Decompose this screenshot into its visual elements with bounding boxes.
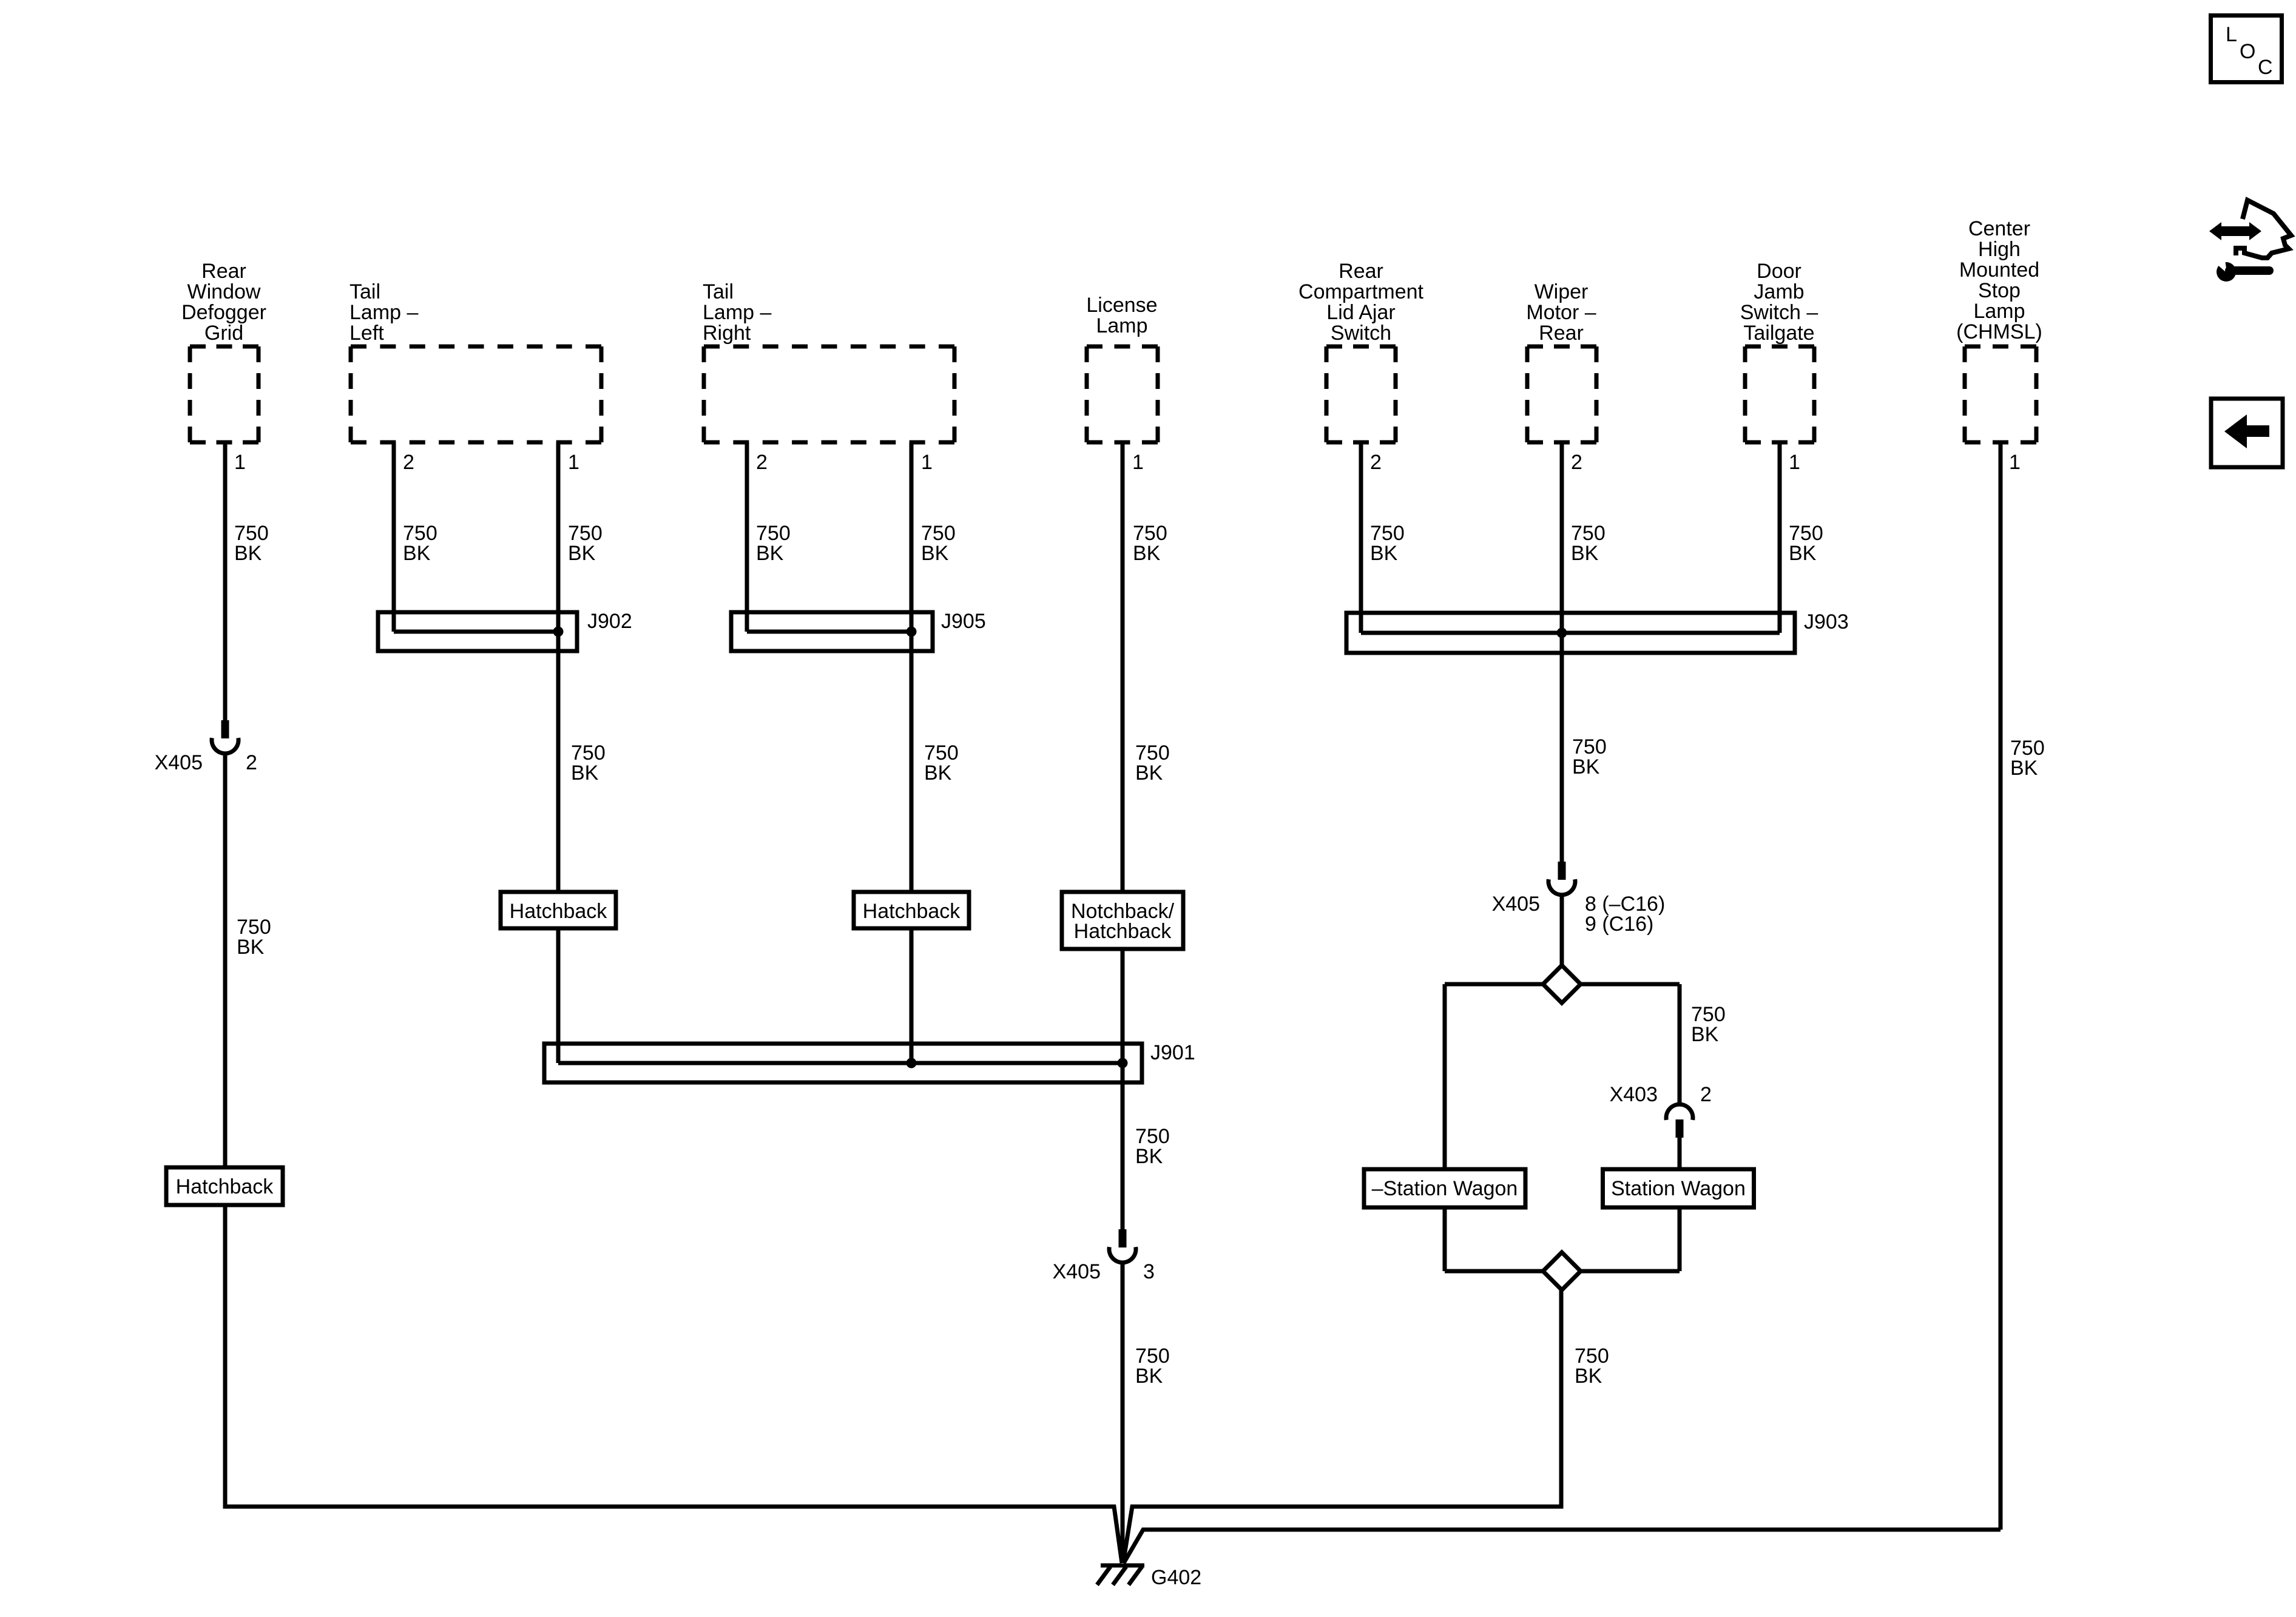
svg-text:BK: BK — [1133, 542, 1161, 565]
svg-text:Lamp –: Lamp – — [703, 301, 771, 324]
svg-text:Hatchback: Hatchback — [176, 1175, 274, 1198]
svg-text:C: C — [2258, 56, 2273, 79]
svg-text:2: 2 — [403, 451, 414, 474]
svg-text:License: License — [1086, 294, 1157, 317]
svg-text:BK: BK — [756, 542, 784, 565]
svg-text:BK: BK — [921, 542, 949, 565]
svg-text:Tail: Tail — [703, 280, 734, 303]
svg-text:X403: X403 — [1610, 1083, 1658, 1106]
svg-text:BK: BK — [237, 936, 265, 959]
svg-text:Lamp –: Lamp – — [349, 301, 418, 324]
svg-text:Lamp: Lamp — [1096, 314, 1147, 337]
svg-text:BK: BK — [568, 542, 596, 565]
svg-text:Jamb: Jamb — [1754, 280, 1804, 303]
svg-text:Hatchback: Hatchback — [510, 900, 608, 923]
svg-text:Wiper: Wiper — [1535, 280, 1589, 303]
svg-text:Left: Left — [349, 322, 384, 345]
svg-text:J901: J901 — [1150, 1041, 1195, 1064]
svg-text:X405: X405 — [1053, 1260, 1101, 1283]
svg-text:BK: BK — [234, 542, 262, 565]
svg-text:Station Wagon: Station Wagon — [1611, 1177, 1746, 1200]
svg-text:2: 2 — [246, 751, 257, 774]
svg-text:J903: J903 — [1804, 610, 1849, 633]
svg-text:Tailgate: Tailgate — [1743, 322, 1814, 345]
svg-text:Window: Window — [187, 280, 261, 303]
svg-text:High: High — [1978, 238, 2021, 261]
svg-text:Rear: Rear — [1539, 322, 1584, 345]
svg-text:BK: BK — [1691, 1023, 1719, 1046]
svg-text:BK: BK — [1135, 1145, 1163, 1168]
svg-text:BK: BK — [1789, 542, 1817, 565]
svg-text:Mounted: Mounted — [1959, 258, 2039, 282]
svg-text:Defogger: Defogger — [181, 301, 266, 324]
svg-text:2: 2 — [756, 451, 768, 474]
svg-text:Door: Door — [1757, 260, 1801, 283]
svg-text:2: 2 — [1571, 451, 1582, 474]
svg-text:1: 1 — [568, 451, 579, 474]
svg-text:(CHMSL): (CHMSL) — [1956, 320, 2042, 343]
svg-text:BK: BK — [1571, 542, 1599, 565]
svg-text:Rear: Rear — [201, 260, 246, 283]
svg-text:Compartment: Compartment — [1298, 280, 1424, 303]
svg-text:BK: BK — [571, 761, 599, 785]
svg-text:1: 1 — [2009, 451, 2021, 474]
svg-text:1: 1 — [921, 451, 933, 474]
svg-text:Hatchback: Hatchback — [1074, 920, 1172, 943]
svg-text:BK: BK — [2010, 757, 2038, 780]
svg-text:O: O — [2240, 40, 2255, 63]
svg-text:2: 2 — [1370, 451, 1382, 474]
svg-text:Center: Center — [1968, 217, 2030, 240]
svg-text:2: 2 — [1700, 1083, 1712, 1106]
svg-text:Grid: Grid — [204, 322, 243, 345]
svg-text:1: 1 — [1789, 451, 1800, 474]
svg-text:Lid Ajar: Lid Ajar — [1326, 301, 1395, 324]
svg-text:L: L — [2226, 23, 2237, 46]
svg-text:J902: J902 — [587, 610, 632, 633]
svg-text:BK: BK — [1370, 542, 1398, 565]
svg-text:Rear: Rear — [1339, 260, 1383, 283]
svg-text:Lamp: Lamp — [1973, 300, 2025, 323]
svg-text:X405: X405 — [155, 751, 203, 774]
svg-text:Tail: Tail — [349, 280, 380, 303]
svg-text:3: 3 — [1143, 1260, 1155, 1283]
svg-text:BK: BK — [1135, 761, 1163, 785]
svg-text:Switch –: Switch – — [1740, 301, 1818, 324]
svg-text:BK: BK — [1135, 1365, 1163, 1388]
svg-text:G402: G402 — [1151, 1566, 1201, 1589]
svg-text:BK: BK — [1572, 755, 1600, 778]
svg-text:1: 1 — [234, 451, 246, 474]
svg-text:J905: J905 — [941, 610, 986, 633]
svg-text:1: 1 — [1132, 451, 1144, 474]
svg-text:BK: BK — [924, 761, 952, 785]
svg-text:X405: X405 — [1492, 893, 1540, 916]
svg-text:Motor –: Motor – — [1526, 301, 1596, 324]
svg-text:–Station Wagon: –Station Wagon — [1372, 1177, 1518, 1200]
svg-text:9 (C16): 9 (C16) — [1585, 913, 1653, 936]
svg-text:Right: Right — [703, 322, 751, 345]
svg-text:Switch: Switch — [1331, 322, 1391, 345]
svg-text:Hatchback: Hatchback — [863, 900, 961, 923]
svg-text:Stop: Stop — [1978, 279, 2021, 302]
svg-text:BK: BK — [1575, 1365, 1602, 1388]
svg-text:BK: BK — [403, 542, 431, 565]
